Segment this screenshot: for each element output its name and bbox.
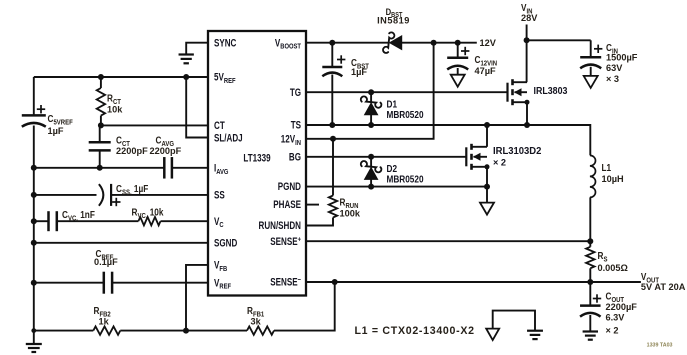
svg-text:PHASE: PHASE: [273, 198, 301, 210]
label VIN: [521, 2, 533, 15]
wire VREF left segment: [34, 282, 104, 284]
svg-text:1k: 1k: [99, 316, 110, 326]
resistor RCT: [97, 88, 105, 116]
wire 12V riser: [306, 43, 434, 139]
node Q1 source junction: [524, 122, 530, 128]
ground arrow C12VIN: [451, 75, 465, 87]
node rail-VC junction: [31, 218, 37, 224]
wire Q2 drain to TS: [486, 125, 488, 147]
capacitor CREF: [104, 272, 112, 294]
label Q2: [493, 146, 542, 157]
svg-text:SENSE+​: SENSE+​: [270, 235, 301, 247]
svg-text:12V: 12V: [480, 38, 497, 48]
pin label TS: [291, 118, 301, 130]
wire bottom ground to RFB2: [34, 330, 94, 332]
node RRUN top junction: [330, 136, 336, 142]
node 5VREF-RCT junction: [98, 74, 104, 80]
svg-text:0.1µF: 0.1µF: [94, 257, 118, 267]
wire RRUN top lead: [332, 139, 334, 196]
pin label PGND: [278, 180, 301, 192]
label D1 part: [387, 109, 424, 120]
svg-text:0.005Ω: 0.005Ω: [598, 263, 629, 273]
label VOUT rating: [641, 282, 686, 292]
label COUT voltage: [606, 312, 626, 322]
wire SS left segment: [34, 194, 97, 196]
label RS: [598, 250, 608, 263]
label COUT count: [606, 325, 619, 335]
wire BG: [306, 156, 466, 158]
svg-text:2200µF: 2200µF: [606, 302, 638, 312]
pin label SS: [214, 188, 225, 200]
wire COUT top lead: [589, 282, 591, 306]
node D2 bottom junction: [368, 184, 374, 190]
capacitor CCT: [89, 142, 111, 150]
plus sign C5VREF: [37, 105, 45, 113]
wire RS top lead: [589, 241, 591, 247]
svg-text:47µF: 47µF: [475, 66, 496, 76]
wire IAVG right segment: [172, 167, 208, 169]
node D2 top junction: [368, 154, 374, 160]
svg-text:SENSE−​: SENSE−​: [270, 275, 301, 287]
resistor RS: [586, 247, 594, 269]
capacitor COUT: [580, 306, 601, 317]
label CCT: [116, 135, 131, 148]
pin label 12VIN: [281, 132, 301, 147]
transistor Q2 IRL3103D2: [466, 144, 489, 170]
wire C12VIN top lead: [457, 43, 459, 58]
wire TG: [306, 91, 508, 93]
pin label SYNC: [214, 36, 237, 48]
svg-text:D2: D2: [387, 163, 398, 174]
wire VIN to CIN: [527, 39, 591, 41]
wire RFB2 to RFB1: [120, 330, 247, 332]
inductor L1: [590, 155, 596, 197]
node rail bottom junction: [31, 328, 36, 333]
wire CIN top lead: [590, 40, 592, 57]
node rail-SGND junction: [31, 240, 37, 246]
wire PHASE stub: [306, 204, 319, 206]
wire C12VIN ground stub: [457, 68, 459, 75]
label VOUT: [641, 271, 660, 284]
pin label IAVG: [214, 161, 228, 176]
wire DBST to 12V: [402, 42, 477, 44]
label RCT value: [107, 104, 123, 114]
wire VC left segment: [34, 220, 49, 222]
ground arrow PGND: [480, 203, 494, 215]
wire VC mid segment: [57, 220, 139, 222]
capacitor CSS straight plate: [110, 184, 112, 206]
pin label SGND: [214, 236, 237, 248]
node VOUT junction: [587, 279, 593, 285]
node feedback junction: [332, 279, 338, 285]
wire PGND: [306, 186, 487, 188]
plus sign COUT: [593, 294, 601, 302]
svg-text:TS: TS: [291, 118, 301, 130]
wire SENSE-: [306, 281, 641, 283]
label CREF: [96, 248, 114, 261]
capacitor CIN: [580, 57, 601, 68]
wire CIN ground stub: [590, 67, 592, 76]
svg-text:3k: 3k: [251, 316, 262, 326]
wire bottom-left ground stub: [33, 331, 35, 344]
svg-text:6.3V: 6.3V: [606, 312, 626, 322]
svg-text:1µF: 1µF: [351, 67, 367, 77]
svg-text:IRL3803: IRL3803: [534, 86, 568, 98]
wire left rail top segment: [33, 77, 35, 115]
svg-text:SS: SS: [214, 188, 225, 200]
node Q2 source junction: [484, 184, 490, 190]
ground arrow legend: [486, 329, 499, 341]
svg-text:5V AT 20A: 5V AT 20A: [641, 282, 686, 292]
label CIN count: [606, 74, 619, 84]
ground bars COUT: [583, 332, 598, 340]
pin label TG: [290, 86, 301, 98]
wire VREF right segment: [112, 282, 208, 284]
svg-text:L1 = CTX02-13400-X2: L1 = CTX02-13400-X2: [355, 325, 475, 337]
label RFB2 value: [99, 316, 110, 326]
svg-text:2200pF: 2200pF: [116, 146, 148, 156]
pin label 5VREF: [214, 70, 236, 85]
label CIN voltage: [606, 63, 623, 73]
label C5VREF value: [48, 126, 64, 136]
label CAVG: [156, 135, 174, 148]
ground arrow CIN: [584, 76, 598, 88]
pin label PHASE: [273, 198, 301, 210]
pin label SL/ADJ: [214, 131, 243, 143]
wire Q2 source to PGND: [486, 167, 488, 187]
op-amp U1 LT1339 controller body: [208, 31, 306, 296]
wire CBST bottom lead: [331, 75, 333, 126]
label VIN value: [521, 13, 538, 23]
label CIN value: [606, 52, 638, 62]
svg-text:10k: 10k: [107, 104, 123, 114]
pin label RUN/SHDN: [259, 219, 302, 231]
ground at SYNC: [179, 55, 194, 64]
label CBST value: [351, 67, 367, 77]
label RCT: [107, 93, 122, 106]
node CT junction: [98, 122, 104, 128]
svg-text:× 3: × 3: [606, 74, 619, 84]
node 12VIN riser junction: [431, 40, 437, 46]
node D1 bottom junction: [368, 122, 374, 128]
wire IAVG left segment: [34, 167, 165, 169]
label RFB1 value: [251, 316, 262, 326]
wire 5VREF rail: [34, 76, 208, 78]
wire SGND: [34, 242, 208, 244]
pin label VBOOST: [275, 36, 302, 51]
wire left ground rail: [33, 126, 35, 331]
wire SL/ADJ tie to 5VREF: [186, 77, 208, 138]
label L1: [602, 162, 612, 173]
label RRUN: [340, 197, 359, 210]
wire L1 to SENSE+: [589, 197, 591, 241]
svg-text:28V: 28V: [521, 13, 538, 23]
label RS value: [598, 263, 629, 273]
note figure number: [647, 342, 673, 348]
ground bars legend: [527, 331, 543, 339]
plus sign C12VIN: [461, 47, 469, 55]
wire CCT top lead: [99, 125, 101, 142]
label CBST: [351, 57, 370, 70]
svg-text:SGND: SGND: [214, 236, 237, 248]
svg-text:SL/ADJ: SL/ADJ: [214, 131, 243, 143]
svg-text:× 2: × 2: [606, 325, 619, 335]
label RFB1: [247, 305, 264, 318]
label DBST part: [377, 15, 410, 25]
svg-text:MBR0520: MBR0520: [387, 109, 424, 120]
diode DBST: [383, 32, 402, 52]
node CCT-IAVG junction: [97, 165, 103, 171]
svg-text:PGND: PGND: [278, 180, 301, 192]
label D2 part: [387, 174, 424, 185]
label RFB2: [94, 305, 111, 318]
node VIN junction: [524, 37, 530, 43]
label CIN: [606, 42, 618, 55]
pin label BG: [289, 150, 301, 162]
label C12VIN value: [475, 66, 496, 76]
label CREF value: [94, 257, 118, 267]
pin label SENSE+: [270, 235, 301, 247]
wire TS switch node: [306, 125, 590, 155]
svg-text:1339 TA03: 1339 TA03: [647, 342, 673, 348]
label DBST: [386, 6, 403, 19]
wire CBST top lead: [331, 43, 333, 67]
wire RCT bottom lead: [100, 116, 102, 126]
label COUT value: [606, 302, 638, 312]
node C12VIN junction: [455, 40, 461, 46]
pin label VC: [214, 215, 224, 230]
label D1: [387, 99, 398, 110]
transistor Q1 IRL3803: [508, 79, 530, 105]
note L1 type: [355, 325, 475, 337]
node rail-IAVG junction: [31, 165, 37, 171]
svg-text:LT1339: LT1339: [243, 151, 270, 163]
label L1 value: [602, 174, 624, 184]
node CBST bottom junction: [329, 122, 335, 128]
plus sign CBST: [337, 55, 345, 63]
wire VBOOST to DBST: [306, 42, 389, 44]
resistor RFB1: [247, 326, 274, 334]
capacitor CAVG: [164, 157, 172, 179]
label Q2 count: [493, 157, 506, 167]
resistor RFB2: [93, 326, 120, 334]
wire SENSE+: [306, 240, 590, 242]
capacitor CVC: [49, 211, 57, 231]
part name LT1339: [243, 151, 270, 163]
label CVC: [62, 209, 95, 222]
label 12V: [480, 38, 497, 48]
svg-text:2200pF: 2200pF: [150, 146, 182, 156]
wire CCT bottom lead: [99, 150, 101, 167]
pin label VFB: [214, 258, 227, 273]
wire CT: [101, 124, 208, 126]
plus sign CSS: [112, 198, 120, 206]
node 5VREF-SL/ADJ junction: [183, 74, 189, 80]
wire VFB: [186, 265, 208, 331]
wire COUT ground stub: [589, 315, 591, 332]
svg-text:TG: TG: [290, 86, 301, 98]
wire Q1 source to TS: [526, 102, 528, 125]
plus sign CIN: [594, 45, 602, 53]
svg-text:× 2: × 2: [493, 157, 506, 167]
label CCT value: [116, 146, 148, 156]
svg-text:CT: CT: [214, 119, 225, 131]
resistor RRUN: [329, 196, 337, 218]
wire RFB1 to SENSE- riser: [274, 282, 335, 331]
svg-text:MBR0520: MBR0520: [387, 174, 424, 185]
svg-text:IN5819: IN5819: [377, 15, 410, 25]
label Q1: [534, 86, 568, 98]
node rail-SS junction: [31, 192, 37, 198]
label RVC: [132, 207, 165, 220]
label D2: [387, 163, 398, 174]
node Q2 drain junction: [484, 122, 490, 128]
svg-text:D1: D1: [387, 99, 398, 110]
label C12VIN: [475, 54, 498, 67]
node CBST top junction: [329, 40, 335, 46]
capacitor C12VIN: [447, 58, 468, 70]
diode D2: [361, 157, 382, 187]
svg-text:L1: L1: [602, 162, 612, 173]
label CAVG value: [150, 146, 182, 156]
pin label CT: [214, 119, 225, 131]
wire RS bottom lead: [589, 268, 591, 282]
wire Q2 ground stub: [486, 187, 488, 203]
svg-text:1µF: 1µF: [48, 126, 64, 136]
svg-text:IRL3103D2: IRL3103D2: [493, 146, 542, 157]
capacitor C5VREF: [22, 115, 46, 126]
capacitor CSS curved plate: [99, 184, 103, 206]
wire SYNC to ground: [186, 43, 208, 55]
pin label VREF: [214, 276, 231, 291]
node rail-VREF junction: [31, 280, 37, 286]
node VFB-divider junction: [183, 328, 189, 334]
svg-text:100k: 100k: [340, 208, 361, 218]
wire VC right segment: [161, 220, 209, 222]
wire SS right segment: [111, 194, 208, 196]
node D1 top junction: [368, 89, 374, 95]
diode D1: [361, 92, 382, 125]
wire VIN drop: [526, 25, 528, 83]
svg-text:63V: 63V: [606, 63, 623, 73]
pin label SENSE-: [270, 275, 301, 287]
wire RUN/SHDN: [306, 218, 333, 226]
label RRUN value: [340, 208, 361, 218]
svg-text:SYNC: SYNC: [214, 36, 237, 48]
svg-text:RUN/SHDN: RUN/SHDN: [259, 219, 302, 231]
resistor RVC: [138, 217, 160, 225]
svg-text:BG: BG: [289, 150, 301, 162]
label COUT: [606, 291, 625, 304]
svg-text:1500µF: 1500µF: [606, 52, 638, 62]
label CSS: [116, 183, 149, 196]
node L1-RS junction: [587, 238, 593, 244]
svg-text:10µH: 10µH: [602, 174, 624, 184]
wire ground legend bracket: [493, 311, 535, 331]
capacitor CBST: [322, 67, 342, 76]
wire RCT top lead: [100, 77, 102, 88]
ground bottom-left: [26, 344, 42, 352]
label C5VREF: [48, 113, 73, 126]
